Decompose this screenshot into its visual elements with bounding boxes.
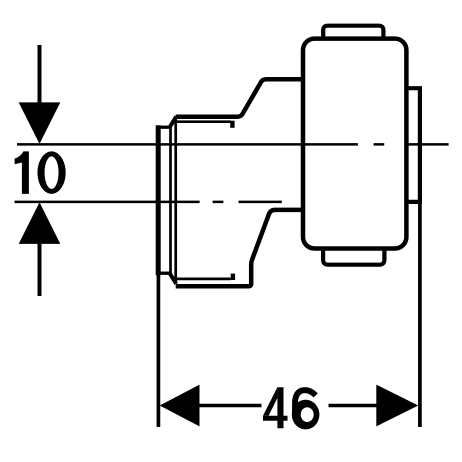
- centerline lower (socket axis / dim 10 bottom extension): [15, 201, 282, 204]
- socket end face top edge: [156, 126, 171, 129]
- dimension text 10: digit 0: [37, 151, 65, 194]
- socket end face inner vertical: [169, 127, 172, 273]
- dimension text 10: digit 1: [15, 151, 29, 194]
- socket inner top line: [177, 120, 231, 123]
- dimension line 46 with arrows: [160, 385, 419, 427]
- centerline upper (outlet axis / dim 10 top extension): [17, 143, 449, 146]
- dimension line 10 vertical with arrows: [19, 45, 61, 296]
- socket/body bottom outline: [176, 210, 303, 286]
- socket inner bottom tick: [231, 274, 235, 280]
- outlet right spigot rectangle: [407, 88, 420, 202]
- socket/body top outline: [176, 79, 303, 117]
- dimension text 46: digit 6: [292, 390, 320, 429]
- dim 46 left extension line: [157, 275, 161, 427]
- dim 46 right extension line: [418, 202, 422, 427]
- outlet body rounded rectangle: [303, 39, 406, 249]
- socket chamfer top: [170, 117, 176, 127]
- socket body front vertical: [174, 117, 177, 284]
- dimension text 46: digit 4: [263, 387, 288, 428]
- socket end face outer edge: [156, 125, 161, 275]
- outlet bottom cap: [323, 248, 384, 265]
- socket chamfer bottom: [170, 273, 176, 283]
- outlet top cap: [323, 26, 383, 39]
- socket end face bottom edge: [156, 272, 171, 275]
- socket inner top tick: [230, 121, 234, 128]
- socket inner bottom line: [177, 278, 231, 281]
